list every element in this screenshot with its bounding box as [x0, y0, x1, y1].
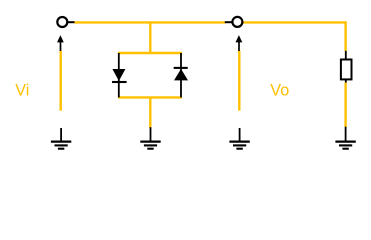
resistor R1 body [341, 60, 352, 80]
terminal node Vo [225, 17, 243, 27]
diode D1 (left, cathode down) [112, 53, 127, 97]
wire diode box top [118, 52, 182, 54]
wire resistor to ground [344, 83, 346, 128]
resistor R1 top lead [345, 51, 347, 60]
terminal node Vi [57, 17, 74, 27]
ground (input reference) [51, 128, 71, 149]
diode D2 (right, cathode up) [174, 53, 188, 97]
wire junction drop to diode pair [149, 22, 151, 53]
wire diode box bottom [118, 96, 182, 98]
svg-text:Vi: Vi [15, 82, 29, 100]
voltage arrow Vi [57, 35, 64, 111]
resistor R1 bottom lead [345, 79, 347, 83]
svg-text:Vo: Vo [270, 82, 289, 100]
wire top left segment [74, 21, 225, 23]
voltage arrow Vo [236, 35, 243, 111]
wire diode pair to ground [149, 97, 151, 128]
ground (load) [335, 127, 355, 149]
wire top right segment with corner down to resistor [240, 22, 346, 51]
ground (output reference) [229, 128, 249, 149]
ground (diode pair) [140, 127, 160, 149]
